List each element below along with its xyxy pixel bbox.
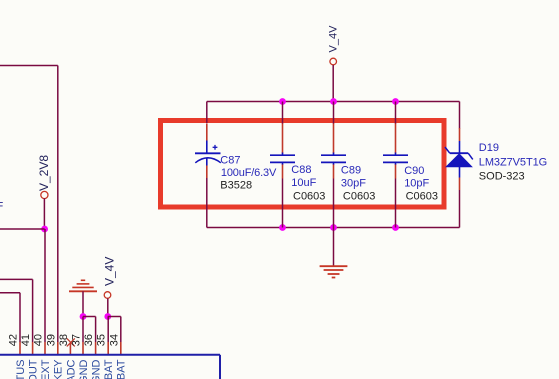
connector body outline — [0, 355, 220, 379]
capacitor C88 10uF C0603 — [270, 102, 325, 228]
svg-text:BAT: BAT — [116, 359, 128, 379]
svg-text:C90: C90 — [404, 165, 424, 177]
capacitor C90 10pF C0603 — [383, 102, 438, 228]
svg-text:V_4V: V_4V — [103, 257, 117, 286]
svg-text:39: 39 — [45, 334, 57, 346]
svg-text:C89: C89 — [341, 164, 361, 176]
wire bottom rail GND net — [207, 227, 460, 229]
svg-text:V_4V: V_4V — [328, 25, 340, 53]
junction V_2V8 — [41, 226, 48, 233]
svg-text:ADC: ADC — [65, 359, 77, 379]
wire GND branch to pin36 — [83, 317, 96, 355]
svg-text:42: 42 — [8, 334, 20, 346]
capacitor C87 polarized 100uF/6.3V B3528 — [195, 102, 277, 228]
power symbol V_4V lower left — [103, 257, 117, 317]
svg-text:D19: D19 — [479, 142, 499, 154]
power symbol V_2V8 — [37, 155, 51, 229]
wire V_2V8 down to pin40 — [44, 229, 46, 355]
wire top rail V_4V net — [207, 101, 460, 103]
svg-text:C87: C87 — [220, 154, 240, 166]
zener diode D19 LM3Z7V5T1G SOD-323 — [445, 102, 547, 228]
svg-text:C0603: C0603 — [343, 191, 375, 203]
wire V_2V8 horizontal — [0, 228, 45, 230]
power symbol V_4V top — [328, 25, 340, 102]
junction GND left — [80, 313, 87, 320]
svg-text:KEY: KEY — [53, 359, 65, 379]
svg-text:37: 37 — [71, 334, 83, 346]
svg-text:38: 38 — [58, 334, 70, 346]
wire left pin39 KEY net — [0, 66, 58, 355]
ground symbol inverted left — [69, 280, 97, 316]
highlight box — [161, 121, 445, 208]
svg-text:10pF: 10pF — [404, 178, 429, 190]
svg-text:OUT: OUT — [28, 359, 40, 379]
svg-text:TUS: TUS — [15, 360, 27, 379]
wire V_4V to pin35 — [107, 317, 109, 355]
wire GND to pin37 — [82, 317, 84, 355]
junction bottom rail at C90 — [392, 224, 399, 231]
junction top rail at C90 — [392, 98, 399, 105]
no-connect X pin38 — [67, 338, 75, 354]
svg-text:B3528: B3528 — [220, 179, 252, 191]
junction V_4V lower — [104, 313, 111, 320]
svg-text:41: 41 — [20, 334, 32, 346]
svg-text:LM3Z7V5T1G: LM3Z7V5T1G — [479, 156, 547, 168]
junction top rail at C89 — [330, 98, 337, 105]
svg-text:30pF: 30pF — [341, 178, 366, 190]
svg-text:10uF: 10uF — [291, 177, 316, 189]
svg-text:BAT: BAT — [103, 359, 115, 379]
junction bottom rail at C89 — [330, 224, 337, 231]
capacitor C89 30pF C0603 — [321, 102, 375, 228]
svg-text:35: 35 — [96, 334, 108, 346]
svg-text:GND: GND — [78, 359, 90, 379]
svg-text:V_2V8: V_2V8 — [37, 155, 51, 191]
svg-text:C0603: C0603 — [293, 191, 325, 203]
wire V_4V branch to pin34 — [108, 317, 121, 355]
svg-text:GND: GND — [91, 359, 103, 379]
svg-text:36: 36 — [83, 334, 95, 346]
wire left pin41 OUT net — [0, 279, 33, 354]
wire left pin42 TUS net — [0, 293, 20, 355]
junction top rail at C88 — [279, 98, 286, 105]
svg-text:40: 40 — [33, 334, 45, 346]
ground symbol main — [320, 228, 348, 278]
svg-text:C88: C88 — [291, 164, 311, 176]
svg-text:34: 34 — [108, 334, 120, 346]
junction bottom rail at C88 — [279, 224, 286, 231]
svg-text:F: F — [0, 201, 4, 213]
svg-text:100uF/6.3V: 100uF/6.3V — [221, 167, 277, 179]
svg-text:EXT: EXT — [40, 359, 52, 379]
svg-text:C0603: C0603 — [406, 191, 438, 203]
svg-text:SOD-323: SOD-323 — [479, 171, 525, 183]
